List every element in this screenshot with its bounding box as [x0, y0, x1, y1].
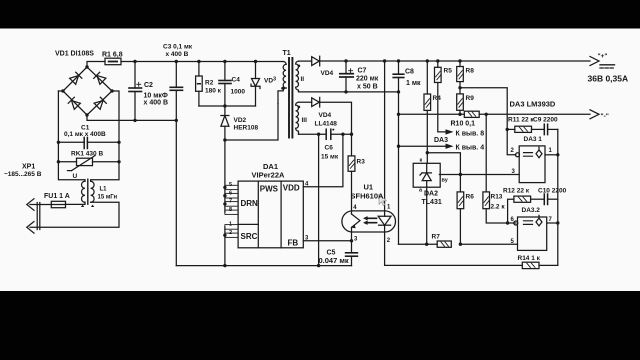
svg-text:C4: C4 [232, 77, 241, 84]
output terminal "-" arrow [590, 110, 599, 119]
fuse FU1 [51, 201, 65, 207]
wire bridge plus to R1 [87, 62, 105, 68]
svg-text:"+": "+" [598, 53, 608, 60]
svg-text:R6: R6 [466, 194, 475, 201]
svg-text:HER108: HER108 [234, 125, 259, 132]
wire VDD pin4 branch [303, 134, 343, 187]
wire DA1 FB pin 3 to opto/C5 [303, 240, 351, 242]
resistor R1 [105, 58, 121, 64]
diode VD4 (winding II rectifier) [312, 56, 320, 66]
wire L1 right top to right AC rail [91, 91, 119, 181]
svg-text:15 мк: 15 мк [321, 154, 339, 161]
wire primary top rail [121, 61, 283, 63]
U1 light arrows [367, 218, 377, 222]
DC polarity symbol [600, 65, 615, 68]
svg-text:R1 6,8: R1 6,8 [102, 52, 123, 59]
svg-text:8: 8 [229, 207, 232, 213]
svg-text:R11 22 к: R11 22 к [508, 117, 534, 124]
node dots top rail / minus row [133, 60, 257, 122]
capacitor C7 [345, 61, 347, 74]
resistor R7 [437, 241, 451, 247]
capacitor C5 [351, 241, 353, 253]
resistor R4 [426, 61, 428, 94]
L1 polarity mark left [81, 205, 84, 207]
svg-text:SRC: SRC [241, 232, 258, 241]
bridge diode bottom-right [94, 97, 106, 109]
svg-text:1000: 1000 [231, 89, 246, 96]
capacitor C1 row wire [58, 141, 84, 143]
svg-text:х 400 В: х 400 В [144, 100, 169, 107]
capacitor C3 column [175, 62, 177, 88]
zener diode VD3 [255, 62, 257, 79]
wire secondary minus rail (C7 bottom) [299, 91, 399, 93]
svg-text:1: 1 [229, 222, 232, 228]
resistor R12 [508, 199, 514, 223]
svg-text:"-": "-" [601, 113, 609, 120]
capacitor C8 [398, 61, 400, 74]
bridge rectifier VD1 diamond [63, 67, 112, 115]
svg-text:LL4148: LL4148 [315, 121, 338, 128]
svg-text:FU1 1 A: FU1 1 A [44, 193, 70, 200]
svg-text:U1: U1 [364, 183, 374, 192]
svg-text:180 к: 180 к [205, 88, 222, 95]
diode VD4 LL4148 (winding III rectifier) [312, 97, 320, 107]
svg-text:C9 2200: C9 2200 [533, 117, 558, 124]
varistor RK1 row wire [58, 161, 76, 163]
capacitor C9 [543, 124, 545, 134]
svg-text:ву: ву [442, 178, 449, 184]
svg-text:III: III [302, 117, 308, 124]
wire TL431 cathode tie [427, 153, 460, 175]
svg-text:C10 2200: C10 2200 [538, 188, 567, 195]
optocoupler U1 ellipse [342, 211, 396, 232]
svg-text:к: к [420, 158, 423, 164]
wire secondary ground rail [385, 264, 523, 266]
DA1 VIPer22A box [238, 181, 303, 248]
U1 LED [384, 61, 386, 216]
svg-text:II: II [301, 76, 305, 83]
wire C6 left / winding III return down to primary ground [318, 134, 320, 265]
wire SRC bus DA1 pins 1-2 to ground rail [224, 227, 226, 266]
wire bridge minus row [87, 115, 176, 120]
wire minus rail right of R10 [479, 113, 590, 115]
resistor R8 [459, 61, 461, 67]
bridge diode top-right [94, 72, 106, 84]
svg-text:0.047 мк: 0.047 мк [319, 256, 349, 265]
svg-text:36В 0,35А: 36В 0,35А [588, 74, 629, 84]
svg-text:VDD: VDD [283, 184, 300, 193]
wire secondary plus rail [320, 60, 590, 62]
resistor R14 [522, 262, 539, 268]
wire output bus vertical [557, 129, 559, 265]
transformer T1 winding III [296, 102, 299, 134]
capacitor C2 plates [129, 87, 142, 89]
svg-text:SFH610A: SFH610A [351, 192, 385, 201]
svg-text:0,1 мк х 400В: 0,1 мк х 400В [64, 131, 106, 138]
bridge corner dots [61, 65, 113, 116]
svg-text:х 400 В: х 400 В [166, 51, 189, 58]
svg-text:R8: R8 [466, 68, 475, 75]
C7 plus sign [349, 69, 353, 73]
svg-text:C6: C6 [325, 145, 334, 152]
svg-text:T1: T1 [283, 50, 291, 57]
svg-text:R10 0,1: R10 0,1 [451, 121, 476, 128]
transformer T1 winding II [296, 61, 299, 92]
wire R5 bottom to K vyv.8 [438, 83, 446, 132]
wire snubber bottom row [199, 105, 256, 107]
resistor R11 [507, 128, 515, 130]
svg-text:XP1: XP1 [22, 164, 35, 171]
wire DA3.2 pin 7 [547, 222, 558, 224]
wire R13 bottom to DA3.2 pin 6 [486, 209, 516, 223]
svg-text:DA3: DA3 [434, 137, 448, 144]
capacitor C4 [224, 62, 226, 81]
capacitor C6 plates [325, 129, 327, 139]
wire L1 left top to left AC rail [58, 91, 85, 181]
bridge diode bottom-left [68, 97, 80, 109]
wire R7 row left part [399, 243, 438, 245]
arrow K vyv.4 [399, 145, 446, 147]
resistor R5 [437, 61, 439, 67]
wire DA3.2 pin 5 row [460, 243, 517, 245]
svg-text:R2: R2 [205, 80, 214, 87]
resistor R3 [351, 134, 353, 156]
svg-text:х 50 В: х 50 В [357, 84, 378, 91]
wire fuse to L1 left winding bottom [66, 202, 86, 204]
wire DA2 anode down to R7 row [426, 187, 428, 244]
inductor L1 right winding [91, 181, 95, 202]
svg-text:10 мкФ: 10 мкФ [144, 93, 168, 100]
svg-text:15 мГн: 15 мГн [98, 195, 118, 201]
transformer T1 core [288, 58, 290, 138]
svg-text:U: U [73, 173, 78, 180]
capacitor C3 plates [170, 86, 182, 88]
svg-text:R5: R5 [444, 68, 453, 75]
svg-text:C7: C7 [358, 68, 367, 75]
svg-text:5: 5 [229, 182, 232, 188]
svg-text:TL431: TL431 [422, 199, 442, 206]
svg-text:DRN: DRN [241, 199, 259, 208]
svg-text:7: 7 [229, 199, 232, 205]
svg-text:~185...265 В: ~185...265 В [4, 171, 42, 178]
inductor L1 left winding [82, 181, 86, 202]
svg-text:VIPer22A: VIPer22A [252, 171, 286, 180]
svg-text:R9: R9 [466, 95, 475, 102]
wire DA2 reference row to DA3.1 pin 3 [439, 174, 519, 176]
U1 phototransistor [351, 211, 353, 214]
capacitor C10 [543, 194, 545, 205]
output terminal "+" arrow [590, 57, 599, 66]
svg-text:PWS: PWS [260, 185, 279, 194]
resistor R13 [485, 114, 487, 192]
wire R8/R9 node to DA3.1 pin2 [460, 88, 516, 155]
svg-text:R4: R4 [433, 95, 442, 102]
svg-text:L1: L1 [100, 187, 108, 193]
svg-text:VD2: VD2 [234, 117, 247, 124]
resistor R10 [464, 111, 479, 117]
L1 polarity mark right [91, 205, 94, 207]
svg-text:2: 2 [229, 230, 232, 236]
svg-text:R12 22 к: R12 22 к [503, 188, 530, 195]
shunt regulator DA2 TL431 box [413, 163, 440, 187]
connector XP1 pin 2 arrow [27, 222, 34, 234]
comparator DA3.1 box [519, 146, 545, 183]
inductor L1 core [87, 179, 89, 204]
wire DA3.1 output pin 1 [545, 154, 558, 156]
svg-text:C8: C8 [405, 69, 414, 76]
svg-text:1 мк: 1 мк [406, 80, 421, 87]
wire drain bus to DA1 pins 5-8 [224, 140, 226, 212]
svg-text:DA3.2: DA3.2 [522, 207, 541, 214]
wire primary bottom rail [176, 265, 351, 267]
diode VD2 [224, 106, 226, 116]
node dots secondary rails [344, 59, 461, 148]
connector XP1 mating lines [36, 203, 38, 230]
wire VD4 cathode down to C6 row [320, 102, 352, 134]
svg-text:R14 1 к: R14 1 к [518, 255, 541, 262]
svg-text:DA3 LM393D: DA3 LM393D [510, 100, 556, 109]
resistor R9 [457, 94, 464, 110]
svg-text:R13: R13 [491, 194, 503, 201]
svg-text:FB: FB [288, 239, 299, 248]
svg-text:К выв. 4: К выв. 4 [456, 145, 485, 152]
wire minus rail left of R10 [399, 113, 465, 115]
capacitor C1 plates [83, 137, 85, 148]
svg-text:VD4: VD4 [319, 112, 332, 119]
svg-text:DA3 1: DA3 1 [524, 136, 543, 143]
transformer T1 primary winding [283, 62, 286, 65]
svg-text:VD1 DI108S: VD1 DI108S [55, 51, 94, 58]
svg-text:2.2 к: 2.2 к [491, 204, 506, 211]
wire XP1 pin2 bottom loop [30, 202, 119, 227]
wire drain node: T1 primary bottom to VD2/DA1 [225, 104, 278, 141]
node dots C1/RK1 rails [57, 141, 121, 164]
wire XP1 pin1 to fuse [30, 204, 51, 206]
resistor R2 [198, 62, 200, 77]
svg-text:R7: R7 [432, 234, 441, 241]
svg-text:220 мк: 220 мк [356, 76, 379, 83]
mouse cursor [379, 195, 386, 206]
capacitor C6 row wire [299, 133, 327, 135]
arrow K vyv.8 [446, 129, 454, 134]
svg-text:VD4: VD4 [321, 70, 334, 77]
varistor RK1 body [77, 158, 93, 165]
DA1 pin stubs 5,6,7,8,1,2 [225, 185, 238, 189]
svg-text:6: 6 [229, 190, 232, 196]
svg-text:К выв. 8: К выв. 8 [456, 131, 485, 138]
bridge diode top-left [70, 72, 82, 84]
svg-text:C3 0,1 мк: C3 0,1 мк [163, 44, 193, 51]
capacitor C2 column [134, 62, 136, 89]
svg-text:C2: C2 [144, 82, 153, 89]
comparator DA3.2 box [518, 217, 547, 250]
connector XP1 pin 1 arrow [27, 199, 34, 211]
svg-text:R3: R3 [357, 159, 366, 166]
resistor R6 [459, 175, 461, 192]
C2 plus sign [137, 82, 141, 86]
svg-text:RK1 430 В: RK1 430 В [71, 151, 103, 158]
svg-text:DA2: DA2 [424, 191, 438, 198]
wire C8 column down to R7 row [398, 78, 400, 245]
